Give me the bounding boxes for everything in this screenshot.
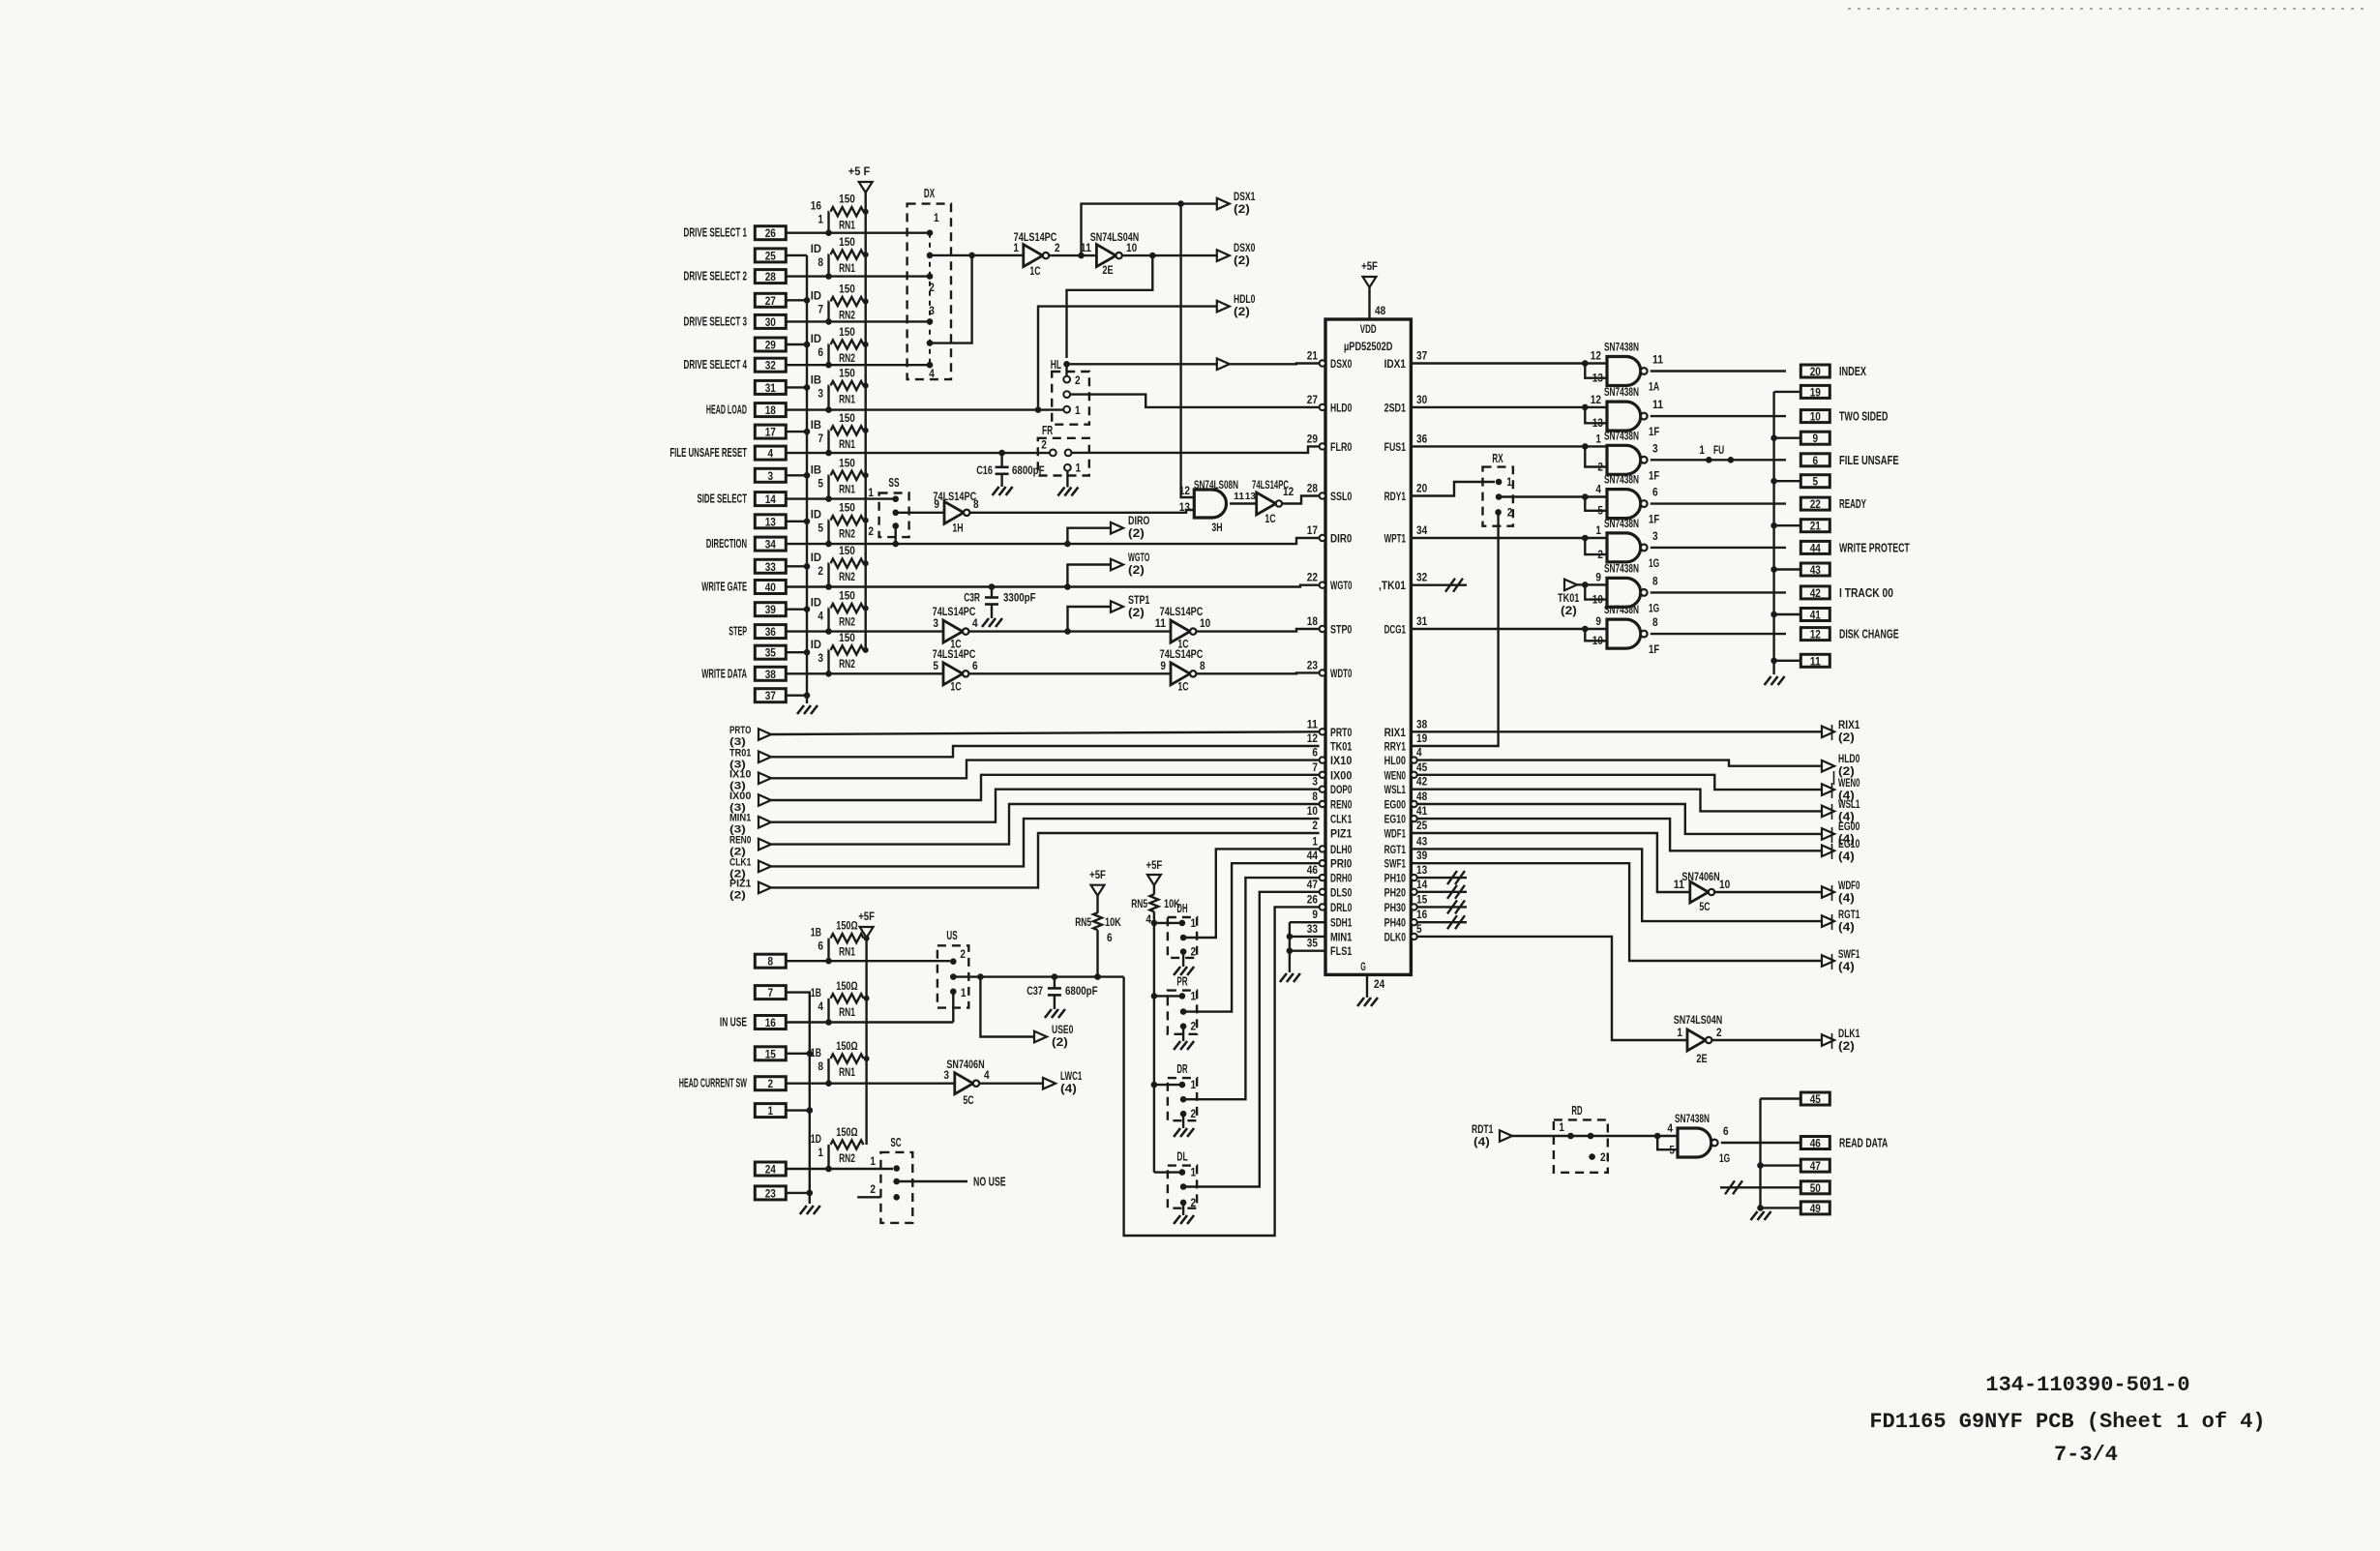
svg-text:150: 150 xyxy=(839,327,855,339)
connector pin 32 xyxy=(684,358,787,373)
wire RN5-4 bus to jumpers xyxy=(1151,911,1182,1172)
svg-text:3: 3 xyxy=(929,306,935,317)
svg-text:RN2: RN2 xyxy=(839,353,855,365)
inverter 5C SN7406N bottom xyxy=(943,1058,990,1107)
svg-text:2: 2 xyxy=(1312,820,1318,832)
svg-text:READ DATA: READ DATA xyxy=(1839,1137,1888,1150)
svg-text:48: 48 xyxy=(1416,791,1428,803)
svg-text:1C: 1C xyxy=(1177,682,1188,694)
wire USE0 branch xyxy=(980,977,1034,1037)
jumper block SS xyxy=(868,476,908,544)
svg-text:DRIVE SELECT 3: DRIVE SELECT 3 xyxy=(684,314,748,328)
wire gate track00 out to pin 42 xyxy=(1651,591,1786,593)
wire DIRECTION row xyxy=(786,538,1319,547)
IC pin 25 WDF1 xyxy=(1384,820,1428,841)
svg-text:150: 150 xyxy=(839,284,855,296)
wire PH40 NC xyxy=(1417,915,1467,929)
wire gate DC out to pin 12 xyxy=(1651,633,1786,635)
svg-text:DR: DR xyxy=(1176,1062,1187,1076)
power +5F RN5 pin6 xyxy=(1089,868,1106,913)
svg-text:19: 19 xyxy=(1416,733,1427,745)
svg-text:8: 8 xyxy=(973,499,979,511)
nand gate 1A SN7438N xyxy=(1582,341,1664,394)
svg-text:IB: IB xyxy=(811,464,821,476)
connector pin 44 xyxy=(1800,541,1910,554)
svg-text:2: 2 xyxy=(929,283,935,294)
flag input PIZ1 xyxy=(729,878,771,901)
svg-text:1: 1 xyxy=(934,213,939,224)
svg-text:10: 10 xyxy=(1719,880,1730,891)
svg-text:WDF0: WDF0 xyxy=(1838,880,1859,892)
svg-text:STEP: STEP xyxy=(729,625,747,639)
wire EG00 out xyxy=(1417,804,1822,834)
svg-text:US: US xyxy=(946,929,957,942)
svg-text:SN74LS04N: SN74LS04N xyxy=(1674,1013,1722,1027)
inverter 1C second 74LS14PC xyxy=(1252,480,1294,525)
wire DSX1 net to 3H pin12 xyxy=(1181,204,1195,497)
svg-text:13: 13 xyxy=(765,515,776,528)
svg-text:1: 1 xyxy=(1191,1080,1197,1091)
svg-text:4: 4 xyxy=(972,618,978,630)
svg-text:47: 47 xyxy=(1810,1159,1821,1173)
svg-text:15: 15 xyxy=(765,1047,776,1060)
flag RGT1 out xyxy=(1822,910,1860,934)
connector pin 47 xyxy=(1800,1159,1830,1173)
wire flag to DSX0 pin xyxy=(1230,362,1320,365)
svg-text:10: 10 xyxy=(1810,410,1821,424)
svg-text:RGT1: RGT1 xyxy=(1838,910,1860,921)
svg-text:150: 150 xyxy=(839,633,855,644)
svg-text:11: 11 xyxy=(1652,355,1664,367)
svg-text:28: 28 xyxy=(765,270,776,283)
svg-text:13: 13 xyxy=(1416,865,1427,877)
svg-text:(2): (2) xyxy=(1128,528,1145,540)
svg-text:41: 41 xyxy=(1416,806,1428,818)
svg-text:2: 2 xyxy=(870,1184,876,1196)
svg-text:RN2: RN2 xyxy=(839,311,855,322)
capacitor C37 xyxy=(1026,977,1097,1018)
svg-text:+5F: +5F xyxy=(858,910,875,923)
wire PR mid to PRI0 xyxy=(1183,863,1320,1011)
svg-text:1B: 1B xyxy=(811,1048,821,1059)
IC pin 27 HLD0 xyxy=(1307,395,1353,415)
svg-text:RRY1: RRY1 xyxy=(1384,740,1407,754)
svg-text:1D: 1D xyxy=(811,1134,821,1146)
svg-text:45: 45 xyxy=(1810,1092,1821,1106)
connector pin 6 xyxy=(1800,454,1898,467)
wire HL mid to HLD0 pin xyxy=(1070,395,1320,407)
svg-text:18: 18 xyxy=(1307,616,1319,628)
svg-text:WDF1: WDF1 xyxy=(1384,827,1407,841)
resistor 150 RN1 pin ID-8 xyxy=(811,237,869,280)
svg-text:SN7438N: SN7438N xyxy=(1604,429,1639,442)
IC pin 31 DCG1 xyxy=(1384,616,1428,637)
svg-text:4: 4 xyxy=(1667,1123,1673,1135)
svg-text:(2): (2) xyxy=(1561,606,1577,617)
svg-text:SN7438N: SN7438N xyxy=(1604,341,1639,354)
svg-text:1: 1 xyxy=(818,1148,823,1159)
svg-text:9: 9 xyxy=(1595,572,1601,583)
wire HDL0 flag net xyxy=(1038,307,1217,410)
svg-text:SN7438N: SN7438N xyxy=(1675,1112,1710,1125)
svg-text:20: 20 xyxy=(1416,484,1427,495)
connector pin 27 xyxy=(755,293,786,308)
svg-text:1: 1 xyxy=(1191,1168,1197,1179)
flag HDL0 xyxy=(1217,294,1256,318)
flag STP1 xyxy=(1111,595,1150,619)
svg-text:PH40: PH40 xyxy=(1384,916,1407,930)
svg-text:32: 32 xyxy=(1416,573,1427,584)
svg-text:WEN0: WEN0 xyxy=(1838,778,1859,790)
svg-text:SN74LS08N: SN74LS08N xyxy=(1194,480,1238,492)
svg-text:50: 50 xyxy=(1810,1181,1821,1195)
wire 3H out to 1C xyxy=(1230,491,1257,504)
svg-text:PRI0: PRI0 xyxy=(1330,857,1353,871)
svg-text:EG00: EG00 xyxy=(1838,821,1859,833)
svg-text:9: 9 xyxy=(1312,910,1318,921)
svg-text:31: 31 xyxy=(765,381,776,395)
svg-text:16: 16 xyxy=(811,201,821,213)
svg-text:4: 4 xyxy=(1595,485,1601,496)
svg-text:3: 3 xyxy=(943,1070,949,1082)
wire NO USE xyxy=(897,1176,1006,1189)
connector pin 5 xyxy=(1800,475,1830,489)
wire STEP row segment 2 xyxy=(968,628,1171,635)
svg-text:17: 17 xyxy=(1307,525,1318,537)
svg-text:21: 21 xyxy=(1810,520,1821,533)
svg-text:8: 8 xyxy=(818,257,823,269)
svg-text:5: 5 xyxy=(818,478,823,490)
svg-text:SC: SC xyxy=(890,1136,901,1149)
wire 2E out to DSX0 flag xyxy=(1122,253,1217,259)
svg-text:(2): (2) xyxy=(1234,204,1250,216)
svg-text:SDH1: SDH1 xyxy=(1330,916,1353,930)
svg-text:SN7438N: SN7438N xyxy=(1604,517,1639,530)
svg-text:30: 30 xyxy=(765,315,776,329)
wire US net to DRL0 xyxy=(1124,907,1320,1236)
svg-text:RD: RD xyxy=(1571,1104,1582,1118)
svg-text:SN7438N: SN7438N xyxy=(1604,385,1639,399)
svg-text:2: 2 xyxy=(1600,1152,1606,1164)
svg-text:6: 6 xyxy=(1723,1126,1729,1138)
wire DS4 to DX pin4 xyxy=(786,364,930,366)
resistor 150 RN2 pin ID-4 xyxy=(811,591,869,635)
svg-text:74LS14PC: 74LS14PC xyxy=(1160,605,1204,618)
connector pin 34 xyxy=(706,537,786,552)
svg-text:5C: 5C xyxy=(963,1095,973,1107)
svg-text:12: 12 xyxy=(1810,628,1821,641)
IC pin 22 WGT0 xyxy=(1307,573,1353,593)
svg-text:8: 8 xyxy=(1652,617,1658,629)
svg-text:RX: RX xyxy=(1492,452,1503,465)
svg-text:44: 44 xyxy=(1307,850,1319,862)
connector pin 50 xyxy=(1800,1181,1830,1195)
svg-text:18: 18 xyxy=(765,403,776,417)
IC pin 9 SDH1 xyxy=(1312,910,1352,930)
svg-text:FU: FU xyxy=(1713,445,1724,457)
wire gate 1A out to pin 20 xyxy=(1651,370,1786,372)
svg-text:1G: 1G xyxy=(1719,1153,1730,1165)
svg-text:5: 5 xyxy=(933,661,938,672)
connector pin 9 xyxy=(1800,432,1830,445)
svg-text:16: 16 xyxy=(1416,910,1427,921)
power +5F RN5 pin4 xyxy=(1146,858,1163,895)
flag USE0 xyxy=(1034,1025,1073,1049)
node HL xyxy=(1051,358,1070,372)
wire pin 29 to ID bus xyxy=(786,342,810,348)
jumper block FR xyxy=(1038,424,1089,496)
svg-text:5: 5 xyxy=(1813,475,1819,489)
flag DSX0 xyxy=(1217,243,1256,267)
svg-text:ID: ID xyxy=(811,598,821,610)
svg-text:ID: ID xyxy=(811,552,821,564)
svg-text:ID: ID xyxy=(811,640,821,651)
svg-text:47: 47 xyxy=(1307,880,1318,891)
svg-text:RDT1: RDT1 xyxy=(1472,1124,1494,1136)
svg-text:150Ω: 150Ω xyxy=(836,1127,857,1139)
svg-text:TK01: TK01 xyxy=(1558,593,1580,605)
wire PRTO to IC xyxy=(771,731,1320,734)
wire pin 17 to ID bus xyxy=(786,429,810,435)
svg-text:29: 29 xyxy=(1307,433,1318,445)
svg-text:1A: 1A xyxy=(1649,382,1659,394)
svg-text:38: 38 xyxy=(1416,719,1428,731)
wire STEP to STP0 pin xyxy=(1196,629,1319,632)
svg-text:150: 150 xyxy=(839,194,855,206)
IC pin 7 IX00 xyxy=(1312,762,1352,783)
IC pin 30 2SD1 xyxy=(1384,395,1428,415)
jumper block SC xyxy=(857,1136,912,1223)
svg-text:1G: 1G xyxy=(1649,558,1659,570)
flag input RDT1 xyxy=(1472,1124,1512,1148)
svg-text:SSL0: SSL0 xyxy=(1330,490,1353,503)
svg-text:26: 26 xyxy=(1307,894,1318,906)
resistor 150 RN2 pin ID-6 xyxy=(811,327,869,369)
wire MIN1 to IC xyxy=(771,790,1320,822)
svg-text:1G: 1G xyxy=(1649,603,1659,614)
connector pin 40 xyxy=(701,581,786,595)
connector pin 19 xyxy=(1800,385,1830,399)
svg-text:I TRACK 00: I TRACK 00 xyxy=(1839,586,1893,600)
jumper block DH xyxy=(1168,902,1197,975)
svg-text:SWF1: SWF1 xyxy=(1838,949,1860,961)
svg-text:SN7438N: SN7438N xyxy=(1604,561,1639,575)
wire DSX0 to HL xyxy=(1067,255,1153,358)
svg-text:ID: ID xyxy=(811,244,821,255)
svg-text:HL: HL xyxy=(1051,358,1061,372)
svg-text:SN7438N: SN7438N xyxy=(1604,473,1639,487)
svg-text:10K: 10K xyxy=(1105,917,1121,929)
wire gate WP out to pin 44 xyxy=(1651,547,1786,549)
wire IX10 to IC xyxy=(771,761,1320,779)
svg-text:44: 44 xyxy=(1810,541,1821,554)
wire TK01 flag to gate xyxy=(1577,583,1585,585)
svg-text:RN1: RN1 xyxy=(839,1067,855,1079)
svg-text:FLS1: FLS1 xyxy=(1330,944,1353,958)
svg-text:7: 7 xyxy=(818,305,823,316)
svg-text:3: 3 xyxy=(818,653,823,665)
inverter 5C SN7406N xyxy=(1674,870,1730,913)
wire WRITE DATA to WDT0 pin xyxy=(1196,671,1319,674)
svg-text:28: 28 xyxy=(1307,484,1319,495)
ground IC pin 24 xyxy=(1357,974,1385,1006)
wire RDT1 to RD xyxy=(1512,1133,1660,1140)
svg-text:150: 150 xyxy=(839,503,855,515)
svg-text:RIX1: RIX1 xyxy=(1838,720,1860,731)
svg-text:1F: 1F xyxy=(1649,470,1659,482)
resistor 150 RN2 pin ID-5 xyxy=(811,503,869,548)
svg-text:5C: 5C xyxy=(1699,902,1710,913)
title sheet name xyxy=(1869,1410,2265,1434)
svg-text:WRITE PROTECT: WRITE PROTECT xyxy=(1839,541,1910,554)
wire TK01 pin32 NC xyxy=(1411,579,1467,592)
svg-text:1: 1 xyxy=(1013,243,1019,254)
nand gate 1F two sided SN7438N xyxy=(1582,385,1664,438)
flag input MIN1 xyxy=(729,813,771,836)
svg-text:43: 43 xyxy=(1416,836,1427,848)
svg-text:21: 21 xyxy=(1307,351,1319,363)
svg-text:IX00: IX00 xyxy=(729,790,751,802)
svg-text:TWO SIDED: TWO SIDED xyxy=(1839,410,1888,424)
svg-text:EG10: EG10 xyxy=(1838,839,1859,850)
svg-text:10: 10 xyxy=(1126,243,1137,254)
svg-text:HEAD LOAD: HEAD LOAD xyxy=(706,403,747,417)
connector pin 7 xyxy=(755,986,786,1000)
svg-text:WSL1: WSL1 xyxy=(1838,799,1860,811)
IC pin 26 DRL0 xyxy=(1307,894,1353,914)
flag WDF0 xyxy=(1822,880,1859,905)
wire WRITE DATA row segment 2 xyxy=(968,672,1171,674)
svg-text:DSX1: DSX1 xyxy=(1234,192,1256,203)
jumper block RD xyxy=(1554,1104,1608,1173)
jumper block DX xyxy=(907,187,951,380)
ground SDH1 bus xyxy=(1280,973,1300,982)
resistor RN5 10K pin4 xyxy=(1131,894,1180,926)
IC pin 32 ,TK01 xyxy=(1379,573,1427,593)
svg-text:31: 31 xyxy=(1416,616,1428,628)
svg-text:12: 12 xyxy=(1591,351,1601,363)
connector pin 18 xyxy=(706,403,786,418)
svg-text:HLD0: HLD0 xyxy=(1330,401,1353,414)
svg-text:35: 35 xyxy=(1307,939,1319,950)
wire pin8 to US pin2 xyxy=(786,960,950,962)
svg-text:1: 1 xyxy=(1595,433,1601,445)
svg-text:C16: C16 xyxy=(976,463,993,477)
flag EG00 out xyxy=(1822,821,1859,846)
wire DS3 to DX pin3 xyxy=(786,320,930,322)
svg-text:13: 13 xyxy=(1592,418,1603,430)
svg-text:(4): (4) xyxy=(1473,1137,1490,1148)
svg-text:HL00: HL00 xyxy=(1384,754,1407,767)
wire CLK1 to IC xyxy=(771,819,1320,866)
svg-text:16: 16 xyxy=(765,1016,776,1029)
svg-text:20: 20 xyxy=(1810,365,1821,378)
flag WSL1 out xyxy=(1822,799,1860,823)
svg-text:(4): (4) xyxy=(1838,851,1855,863)
connector pin 11 xyxy=(1800,654,1830,668)
svg-text:43: 43 xyxy=(1810,563,1821,577)
svg-text:12: 12 xyxy=(1307,733,1318,745)
svg-text:DRH0: DRH0 xyxy=(1330,872,1353,885)
svg-text:+5F: +5F xyxy=(1361,259,1378,273)
svg-text:RN2: RN2 xyxy=(839,529,855,541)
svg-text:2: 2 xyxy=(1055,243,1060,254)
svg-text:48: 48 xyxy=(1375,306,1386,317)
capacitor C3R xyxy=(964,587,1035,628)
connector pin 13 xyxy=(755,515,786,529)
svg-text:4: 4 xyxy=(929,369,935,380)
IC pin 45 WEN0 xyxy=(1384,762,1428,783)
svg-text:8: 8 xyxy=(818,1061,823,1073)
svg-text:STP1: STP1 xyxy=(1128,595,1150,607)
svg-text:IX00: IX00 xyxy=(1330,768,1353,782)
IC pin 15 PH30 xyxy=(1384,894,1428,914)
svg-text:1: 1 xyxy=(1076,463,1082,475)
wire DS1 to DX pin1 xyxy=(786,231,930,233)
svg-text:INDEX: INDEX xyxy=(1839,365,1866,378)
svg-text:17: 17 xyxy=(765,426,776,439)
resistor 150ohm RN1 pin 1B-8 xyxy=(811,1041,870,1087)
svg-text:1: 1 xyxy=(1191,918,1197,930)
wire DLK0 to 2E xyxy=(1417,937,1687,1040)
svg-text:(2): (2) xyxy=(1052,1037,1068,1049)
IC pin 23 WDT0 xyxy=(1307,660,1353,680)
ground ID bus xyxy=(797,705,818,714)
wire gate out FU to pin 6 xyxy=(1651,445,1786,463)
svg-text:11: 11 xyxy=(1810,654,1821,668)
svg-text:C3R: C3R xyxy=(964,591,980,605)
IC pin 34 WPT1 xyxy=(1384,525,1428,546)
IC pin 20 RDY1 xyxy=(1384,484,1428,504)
svg-text:µPD52502D: µPD52502D xyxy=(1344,342,1392,353)
ground bottom ID bus xyxy=(800,1206,820,1214)
svg-text:1: 1 xyxy=(1191,991,1197,1002)
svg-text:5: 5 xyxy=(818,523,823,535)
IC pin 35 FLS1 xyxy=(1307,939,1353,959)
ground read data bus xyxy=(1751,1211,1771,1220)
svg-text:FUS1: FUS1 xyxy=(1384,440,1407,454)
svg-text:TR01: TR01 xyxy=(729,747,751,759)
IC pin 47 DLS0 xyxy=(1307,880,1353,900)
svg-text:4: 4 xyxy=(818,611,823,623)
svg-text:27: 27 xyxy=(765,294,776,308)
flag SWF1 out xyxy=(1822,949,1860,973)
svg-text:TK01: TK01 xyxy=(1330,740,1353,754)
connector pin 14 xyxy=(698,492,787,507)
svg-text:(2): (2) xyxy=(1234,255,1250,267)
wire 2E out to DLK1 flag xyxy=(1711,1039,1822,1041)
wire 1H out to 3H pin13 xyxy=(969,510,1194,513)
wire SDH1 MIN1 FLS1 bus xyxy=(1287,922,1325,972)
svg-text:36: 36 xyxy=(1416,433,1427,445)
svg-text:2SD1: 2SD1 xyxy=(1384,401,1407,414)
svg-text:3H: 3H xyxy=(1211,522,1222,534)
svg-text:RN1: RN1 xyxy=(839,1007,855,1019)
capacitor C16 xyxy=(976,453,1044,495)
svg-text:+5F: +5F xyxy=(1089,868,1106,881)
IC pin 1 DLH0 xyxy=(1312,836,1352,856)
wire WRITE GATE row xyxy=(786,583,1319,590)
svg-text:4: 4 xyxy=(818,1001,823,1013)
connector pin 37 xyxy=(755,689,786,703)
svg-text:DISK CHANGE: DISK CHANGE xyxy=(1839,628,1899,641)
svg-text:150Ω: 150Ω xyxy=(836,981,857,993)
svg-text:45: 45 xyxy=(1416,762,1428,774)
svg-text:49: 49 xyxy=(1810,1202,1821,1215)
connector pin 20 xyxy=(1800,365,1866,378)
flag RIX1 xyxy=(1822,720,1860,744)
wire DX tap to inverter 1C xyxy=(930,254,1024,256)
